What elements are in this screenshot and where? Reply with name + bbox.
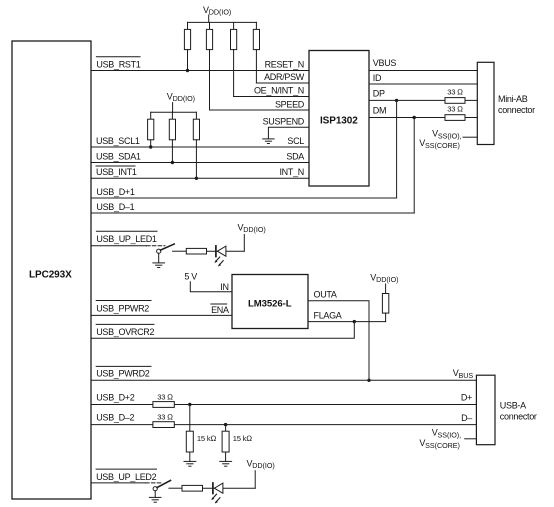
wire SPEED xyxy=(210,109,310,111)
svg-text:USB_D–1: USB_D–1 xyxy=(96,202,134,212)
svg-text:Mini-AB: Mini-AB xyxy=(498,94,528,104)
svg-text:USB_UP_LED1: USB_UP_LED1 xyxy=(96,234,157,244)
wire SDA pull-up drop xyxy=(171,140,173,163)
wire INT_N pull-up drop xyxy=(195,140,197,179)
wire R3 to OE_N net xyxy=(233,50,235,97)
svg-text:5 V: 5 V xyxy=(184,272,197,282)
wire R to LED1 xyxy=(207,250,245,252)
wire USB_D+1 xyxy=(91,197,397,199)
resistor LED2 series xyxy=(182,485,203,491)
svg-text:VDD(IO): VDD(IO) xyxy=(203,5,231,16)
label VSS USB-A xyxy=(419,427,461,450)
svg-text:IN: IN xyxy=(220,282,228,292)
IC U2 ISP1302 xyxy=(309,51,369,187)
wire USB_UP_LED2 xyxy=(91,482,146,484)
wire S1 to R xyxy=(173,250,187,252)
wire VBUS (ISP to Mini-AB) xyxy=(369,70,477,72)
wire SCL pull-up drop xyxy=(150,140,152,147)
svg-text:DP: DP xyxy=(373,89,385,99)
power VDD(IO) second xyxy=(167,92,195,113)
svg-text:RESET_N: RESET_N xyxy=(265,59,304,69)
IC U1 LPC293X xyxy=(12,41,91,499)
resistor 15k D+2 xyxy=(186,431,216,452)
svg-text:VDD(IO): VDD(IO) xyxy=(247,459,275,471)
resistor pull-up SDA xyxy=(169,119,175,140)
wire ID xyxy=(369,83,477,85)
svg-text:USB_D+1: USB_D+1 xyxy=(96,187,134,197)
svg-text:OE_N/INT_N: OE_N/INT_N xyxy=(254,86,304,96)
wire VDD top bus xyxy=(188,21,257,23)
pin label USB_UP_LED1 xyxy=(96,231,157,244)
node junction D+2 pulldown xyxy=(188,403,191,406)
svg-text:ADR/PSW: ADR/PSW xyxy=(264,72,305,82)
wire 15k1 to ground xyxy=(189,452,191,461)
resistor pull-up ADR/PSW xyxy=(253,29,259,49)
wire USB_PWRD2 / VBUS xyxy=(91,379,476,381)
wire USB_OVRCR2 xyxy=(91,322,354,339)
switch S2 xyxy=(153,480,170,490)
wire LED1 to VDD xyxy=(243,235,245,252)
ground SUSPEND xyxy=(263,139,274,144)
svg-text:INT_N: INT_N xyxy=(279,167,304,177)
wire USB_INT1 / INT_N xyxy=(91,177,309,179)
svg-text:ENA: ENA xyxy=(211,305,229,315)
wire FLAGA xyxy=(308,321,386,323)
svg-text:ID: ID xyxy=(373,73,382,83)
wire R to LED2 xyxy=(203,487,256,489)
svg-text:USB_INT1: USB_INT1 xyxy=(96,167,137,177)
svg-text:VBUS: VBUS xyxy=(373,58,397,68)
wire LED2 to VDD xyxy=(254,471,256,489)
connector J2 USB-A xyxy=(476,375,537,445)
svg-text:VDD(IO): VDD(IO) xyxy=(167,92,195,104)
svg-text:USB_D–2: USB_D–2 xyxy=(96,413,134,423)
node junction FLAGA OVRCR2 xyxy=(353,320,356,323)
wire 5V to IN xyxy=(190,282,232,292)
svg-text:33 Ω: 33 Ω xyxy=(447,87,463,96)
wire USB_UP_LED1 xyxy=(91,245,147,247)
svg-text:USB_SDA1: USB_SDA1 xyxy=(96,151,141,161)
svg-text:15 kΩ: 15 kΩ xyxy=(197,434,217,443)
node junction DM xyxy=(413,116,416,119)
wire VSS stub Mini-AB xyxy=(463,136,477,138)
svg-text:VDD(IO): VDD(IO) xyxy=(238,223,266,235)
power VDD(IO) FLAGA xyxy=(370,272,398,293)
svg-text:FLAGA: FLAGA xyxy=(314,311,342,321)
svg-text:VDD(IO): VDD(IO) xyxy=(370,272,398,284)
svg-text:USB_SCL1: USB_SCL1 xyxy=(96,136,140,146)
wire USB_RST1 / RESET_N xyxy=(91,70,309,72)
svg-text:D+: D+ xyxy=(461,393,472,403)
svg-text:33 Ω: 33 Ω xyxy=(157,392,173,401)
svg-text:ISP1302: ISP1302 xyxy=(320,116,358,127)
node junction SDA pull-up xyxy=(171,161,174,164)
resistor pull-up SCL xyxy=(148,119,154,140)
wire D-2 pulldown xyxy=(225,425,227,432)
ground S2 xyxy=(149,491,161,502)
wire resistor drops second xyxy=(151,112,197,119)
svg-text:USB-A: USB-A xyxy=(500,400,526,410)
svg-text:USB_UP_LED2: USB_UP_LED2 xyxy=(96,472,157,482)
label VSS Mini-AB xyxy=(419,128,461,150)
connector J1 Mini-AB xyxy=(477,62,535,144)
svg-text:33 Ω: 33 Ω xyxy=(447,105,463,114)
wire DM to USB_D-1 xyxy=(413,118,415,214)
switch S1 xyxy=(157,244,175,253)
node junction D-2 pulldown xyxy=(224,423,227,426)
svg-text:LM3526-L: LM3526-L xyxy=(248,299,292,310)
LED D1 xyxy=(214,246,226,267)
wire USB_PPWR2 / ENA xyxy=(91,314,232,316)
wire R2 to SPEED net xyxy=(209,50,211,110)
resistor pull-up RESET_N xyxy=(184,29,190,49)
wire USB_D+2 xyxy=(91,404,476,406)
resistor 33ohm DP xyxy=(445,87,465,103)
wire VDD second bus xyxy=(151,111,197,113)
resistor 33ohm DM xyxy=(445,105,465,121)
wire 15k2 to ground xyxy=(225,452,227,461)
pin label USB_RST1 xyxy=(96,57,140,70)
svg-text:SPEED: SPEED xyxy=(275,99,305,109)
pin label ENA xyxy=(211,304,229,315)
resistor pull-up OE_N xyxy=(231,29,237,49)
resistor FLAGA pull-up xyxy=(382,294,388,314)
wire VSS stub USB-A xyxy=(465,438,477,440)
resistor pull-up SPEED xyxy=(206,29,212,49)
svg-text:15 kΩ: 15 kΩ xyxy=(233,434,253,443)
pin label USB_OVRCR2 xyxy=(96,324,154,336)
svg-text:LPC293X: LPC293X xyxy=(29,270,72,281)
wire S2 to R xyxy=(169,487,182,489)
IC U3 LM3526-L xyxy=(232,275,308,329)
wire OUTA xyxy=(308,301,369,381)
wire USB_D-1 xyxy=(91,212,414,214)
svg-text:USB_OVRCR2: USB_OVRCR2 xyxy=(96,327,154,337)
power VDD(IO) top xyxy=(203,5,231,23)
svg-text:connector: connector xyxy=(498,105,535,115)
svg-text:USB_PPWR2: USB_PPWR2 xyxy=(96,303,149,313)
svg-text:USB_PWRD2: USB_PWRD2 xyxy=(96,369,150,379)
svg-text:D–: D– xyxy=(461,413,472,423)
wire USB_SCL1 / SCL xyxy=(91,146,309,148)
wire R1 to RESET_N net xyxy=(187,50,189,71)
node junction SCL pull-up xyxy=(149,145,152,148)
svg-text:SCL: SCL xyxy=(287,136,304,146)
wire USB_D-2 xyxy=(91,424,476,426)
resistor 33ohm D+2 xyxy=(153,392,174,407)
svg-text:USB_RST1: USB_RST1 xyxy=(96,59,140,69)
pin label USB_PPWR2 xyxy=(96,301,151,314)
node junction INT_N pull-up xyxy=(195,177,198,180)
wire FLAGA pull-up drop xyxy=(385,313,387,322)
node junction OUTA VBUS xyxy=(367,379,370,382)
svg-text:SUSPEND: SUSPEND xyxy=(263,116,305,126)
ground 15k D-2 xyxy=(220,461,232,466)
wire ADR/PSW xyxy=(256,82,309,84)
wire SUSPEND xyxy=(268,127,309,139)
pin label USB_INT1 xyxy=(96,166,137,177)
resistor pull-up INT_N xyxy=(193,119,199,140)
wire D+2 pulldown xyxy=(189,405,191,432)
ground 15k D+2 xyxy=(184,461,196,466)
resistor LED1 series xyxy=(186,248,206,254)
resistor 33ohm D-2 xyxy=(153,412,174,427)
resistor 15k D-2 xyxy=(222,431,252,452)
svg-text:DM: DM xyxy=(373,106,386,116)
wire resistor drops top xyxy=(188,22,257,29)
svg-text:OUTA: OUTA xyxy=(314,290,337,300)
wire USB_UP_LED2 dashed xyxy=(146,482,161,484)
pin label USB_UP_LED2 xyxy=(96,469,157,482)
node junction DP xyxy=(395,99,398,102)
pin label USB_PWRD2 xyxy=(96,366,151,378)
svg-text:33 Ω: 33 Ω xyxy=(157,412,173,421)
wire DM xyxy=(369,117,477,119)
svg-text:connector: connector xyxy=(500,412,537,422)
ground S1 xyxy=(153,253,165,267)
wire R4 to ADR/PSW net xyxy=(255,50,257,83)
wire DP xyxy=(369,99,477,101)
wire USB_UP_LED1 dashed xyxy=(147,245,166,247)
svg-text:SDA: SDA xyxy=(286,151,304,161)
wire USB_SDA1 / SDA xyxy=(91,162,309,164)
wire DP to USB_D+1 xyxy=(396,100,398,198)
wire OE_N/INT_N xyxy=(234,96,309,98)
LED D2 xyxy=(211,483,223,504)
svg-text:USB_D+2: USB_D+2 xyxy=(96,392,134,402)
node junction RESET_N pull-up xyxy=(186,69,189,72)
